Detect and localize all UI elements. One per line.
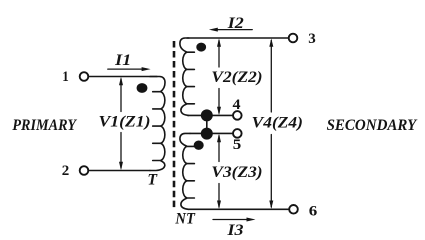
svg-text:1: 1 xyxy=(62,69,69,85)
wire secondary bottom to terminal 6 xyxy=(188,208,289,210)
terminal 6 xyxy=(289,205,298,214)
dimension line V3 lower segment xyxy=(218,184,220,208)
svg-text:I2: I2 xyxy=(227,15,244,32)
dimension line V4 upper segment xyxy=(270,41,272,113)
wire terminal 1 to primary winding xyxy=(88,76,157,78)
svg-text:T: T xyxy=(147,171,158,188)
terminal 4 xyxy=(233,111,242,120)
current arrow I3 line xyxy=(213,219,248,221)
dimension line V3 upper segment xyxy=(218,136,220,162)
junction dot at tap 4 xyxy=(201,109,213,121)
arrowhead V2 up xyxy=(217,38,221,46)
current arrow I2 line xyxy=(217,29,252,31)
svg-text:SECONDARY: SECONDARY xyxy=(327,116,419,134)
core (dashed line between windings) xyxy=(173,41,176,207)
wire terminal 2 to primary winding xyxy=(88,170,150,172)
wire junction 4-5 connector xyxy=(206,115,208,133)
secondary lower winding (coil, bulge left) xyxy=(180,133,195,209)
polarity dot secondary lower xyxy=(194,141,204,150)
arrowhead I3 right xyxy=(247,218,256,222)
dimension line V1 upper segment xyxy=(120,79,122,112)
svg-text:V1(Z1): V1(Z1) xyxy=(99,111,151,130)
polarity dot primary xyxy=(137,83,148,93)
wire terminal 3 to secondary upper winding xyxy=(187,37,289,39)
current arrow I1 line xyxy=(108,68,143,70)
svg-text:6: 6 xyxy=(309,203,318,219)
svg-text:I1: I1 xyxy=(114,52,131,69)
arrowhead V3 up xyxy=(217,134,221,142)
polarity dot secondary upper xyxy=(196,43,206,52)
svg-text:I3: I3 xyxy=(226,222,243,236)
arrowhead V4 up xyxy=(269,38,273,46)
terminal 3 xyxy=(289,34,298,43)
primary winding T (coil, bulge right) xyxy=(150,77,165,171)
terminal 1 xyxy=(80,72,89,81)
arrowhead V2 down xyxy=(217,107,221,115)
svg-text:2: 2 xyxy=(62,163,70,179)
svg-text:V3(Z3): V3(Z3) xyxy=(211,162,262,181)
arrowhead I2 left xyxy=(209,28,218,32)
svg-text:V2(Z2): V2(Z2) xyxy=(211,67,262,86)
svg-text:PRIMARY: PRIMARY xyxy=(12,116,78,134)
wire tap to terminal 4 xyxy=(188,114,233,116)
dimension line V2 lower segment xyxy=(218,89,220,114)
arrowhead V4 down xyxy=(269,201,273,209)
dimension line V1 lower segment xyxy=(120,133,122,169)
svg-text:3: 3 xyxy=(308,31,316,47)
wire tap to terminal 5 xyxy=(190,132,233,134)
terminal 2 xyxy=(80,166,89,175)
arrowhead V1 up xyxy=(119,77,123,85)
svg-text:NT: NT xyxy=(174,211,196,228)
arrowhead I1 right xyxy=(142,67,151,71)
terminal 5 xyxy=(233,129,242,138)
dimension line V4 lower segment xyxy=(270,135,272,208)
arrowhead V3 down xyxy=(217,201,221,209)
svg-text:V4(Z4): V4(Z4) xyxy=(252,113,303,132)
arrowhead V1 down xyxy=(119,162,123,170)
svg-text:5: 5 xyxy=(233,137,242,153)
secondary upper winding (coil, bulge left) xyxy=(180,38,195,115)
svg-text:4: 4 xyxy=(233,97,241,113)
junction dot at tap 5 xyxy=(201,128,213,140)
dimension line V2 upper segment xyxy=(218,41,220,68)
